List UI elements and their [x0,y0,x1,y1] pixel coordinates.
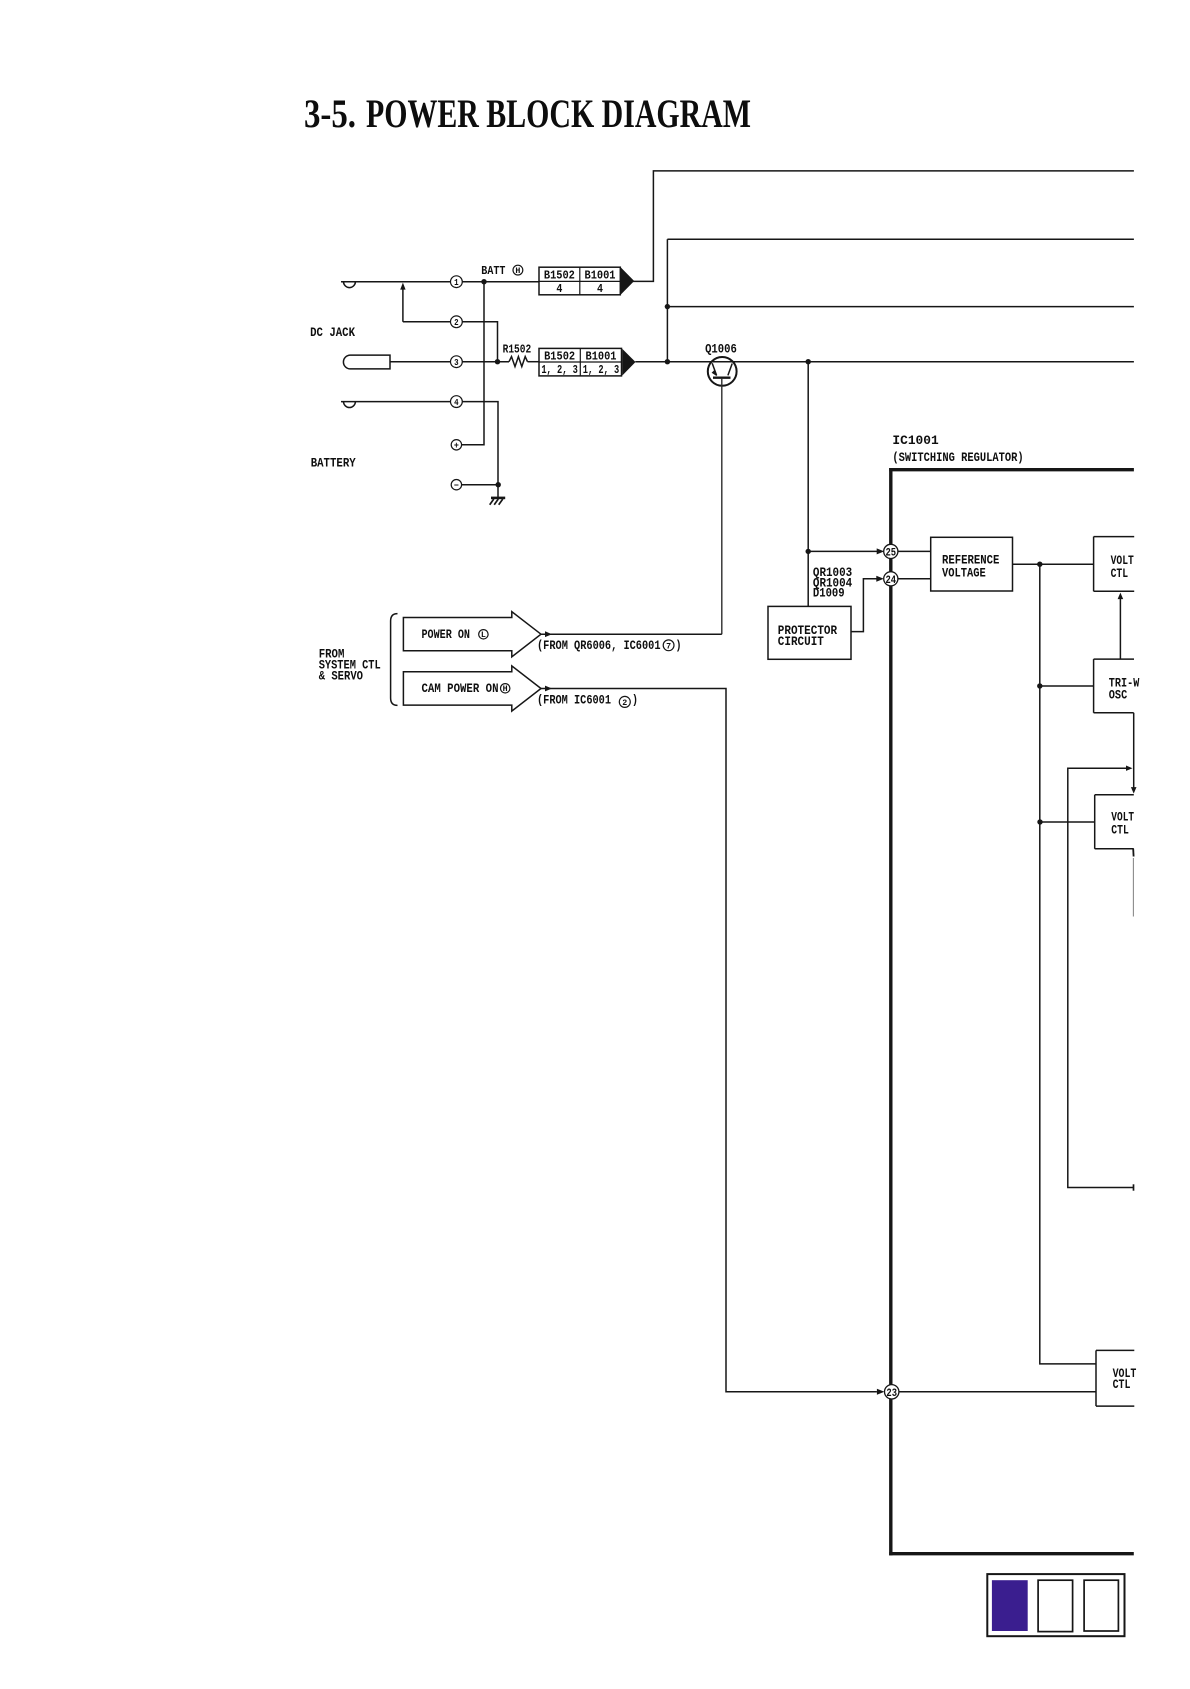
DC jack contact pin 1 (cup) [343,282,355,288]
pin 4 [451,396,463,408]
pin 2 [451,316,463,328]
svg-text:CTL: CTL [1111,566,1129,581]
svg-text:+: + [454,441,459,451]
plug-detect switch arrow [402,289,404,322]
wire - terminal to ground [462,484,498,486]
wire arrow to pin 2 [403,321,451,323]
svg-text:POWER ON: POWER ON [422,627,471,642]
svg-text:2: 2 [454,317,459,328]
svg-text:L: L [481,631,486,640]
battery + terminal [451,440,461,450]
pin 25 [884,544,898,558]
junction rail x667 [665,359,670,364]
connector block arrow (to top rail) [621,268,634,295]
svg-text:B1502: B1502 [544,270,575,283]
block REFERENCE VOLTAGE [931,537,1013,591]
svg-text:4: 4 [597,283,603,296]
wire tri-osc down to volt ctl 2 [1133,713,1135,790]
svg-text:H: H [503,685,508,694]
svg-text:(SWITCHING REGULATOR): (SWITCHING REGULATOR) [892,450,1023,465]
svg-text:B1001: B1001 [585,270,616,283]
svg-text:4: 4 [454,397,459,408]
DC jack contact pin 4 (cup) [343,402,355,408]
connector B1502/B1001 pins 1-3 block [539,348,622,376]
svg-text:IC1001: IC1001 [892,433,938,448]
ground (chassis) [491,497,505,500]
wire pin 25 to reference voltage [898,550,931,552]
signal arrow POWER ON L [403,612,541,657]
junction pin2 net on pin3 wire [495,359,500,364]
wire bus to volt ctl 2 [1040,821,1095,823]
wire feedback loop [1068,768,1134,1187]
svg-text:3: 3 [454,357,459,368]
wire plug to pin 3 [390,361,451,363]
feedback end tick [1133,1184,1135,1190]
IC1001 box outline [889,468,1134,471]
block VOLT CTL (middle) [1094,795,1096,849]
block VOLT CTL (top) [1093,537,1095,592]
wire pin 24 to reference voltage [898,578,931,580]
wire rail 2 [667,238,1134,240]
signal arrow CAM POWER ON H [403,666,541,711]
wire + terminal up to BATT node [462,282,484,445]
svg-text:(FROM QR6006, IC6001: (FROM QR6006, IC6001 [537,638,661,653]
wire rail 3 [667,306,1134,308]
wire tri-osc to volt ctl up [1119,599,1121,659]
junction tri-osc input [1037,683,1042,688]
bracket FROM SYSTEM CTL [391,614,398,706]
wire jack contact to pin 4 [341,401,451,403]
svg-text:VOLTAGE: VOLTAGE [942,566,986,581]
svg-text:): ) [676,638,682,653]
DC jack contact pin 3 (plug) [343,355,390,369]
wire resistor to connector [528,361,540,363]
wire bus to tri-osc [1040,685,1094,687]
svg-text:CAM POWER ON: CAM POWER ON [422,681,499,696]
wire pin 2 right then down to pin-3 net [462,322,497,362]
svg-text:D1009: D1009 [813,585,845,600]
pin 24 [884,572,898,586]
svg-text:−: − [454,481,459,491]
wire pin3 net main rail [635,361,1134,363]
svg-text:3-5.: 3-5. [304,91,356,136]
wire Q1006 base down to POWER ON net [721,379,723,634]
wire pin 3 to resistor [462,361,509,363]
wire vertical reference bus [1040,564,1096,1364]
connector block arrow (pins 1-3) [622,349,635,376]
svg-text:OSC: OSC [1109,688,1128,703]
svg-text:24: 24 [886,575,897,587]
block VOLT CTL (bottom) [1095,1350,1097,1406]
svg-text:BATTERY: BATTERY [311,456,356,471]
wire reference voltage output [1013,563,1094,565]
svg-text:(FROM IC6001: (FROM IC6001 [537,693,611,708]
page tab marker [987,1574,1124,1636]
svg-text:B1502: B1502 [544,350,575,363]
faint line below volt ctl 2 [1132,858,1134,917]
svg-text:BATT: BATT [481,264,505,278]
arrowhead into pin 24 [876,576,884,582]
svg-text:B1001: B1001 [586,350,617,363]
junction rail 3 [665,304,670,309]
wire Q1006 node down to protector [807,362,809,607]
svg-text:1: 1 [454,277,459,288]
svg-text:1, 2, 3: 1, 2, 3 [541,364,578,377]
wire rail up x667 [666,239,668,362]
svg-text:Q1006: Q1006 [705,342,737,357]
wire connector to top rail [633,171,1134,282]
battery - terminal [451,480,461,490]
wire POWER ON to Q1006 base [541,633,722,635]
pin 3 [451,356,463,368]
svg-text:CIRCUIT: CIRCUIT [778,634,824,649]
svg-text:23: 23 [886,1388,897,1400]
wire jack contact to pin 1 [341,281,451,283]
arrowhead into pin 23 [877,1389,885,1395]
wire node to pin 25 [808,550,877,552]
junction Q1006 collector node [806,359,811,364]
wire protector to pin 24 [851,579,877,632]
svg-text:25: 25 [886,547,897,559]
pin 23 [885,1385,899,1399]
pin 1 [451,276,463,288]
svg-text:CTL: CTL [1111,823,1129,838]
svg-text:7: 7 [666,641,671,651]
junction volt ctl 2 input [1037,819,1042,824]
wire pin 4 to ground net [462,402,498,485]
block TRI-WAVE OSC [1093,659,1095,713]
junction ground node [496,482,501,487]
svg-text:CTL: CTL [1113,1377,1131,1392]
protector circuit block [768,606,851,659]
svg-text:1, 2, 3: 1, 2, 3 [583,364,620,377]
svg-text:H: H [515,267,520,276]
wire pin 23 to volt ctl 3 [899,1391,1096,1393]
svg-text:): ) [632,693,638,708]
volt ctl 2 bottom tick [1132,849,1134,857]
wire CAM POWER ON down to pin 23 [541,689,877,1392]
transistor Q1006 [708,357,737,386]
arrowhead POWER ON [545,631,552,637]
resistor R1502 [509,357,528,367]
svg-text:POWER BLOCK DIAGRAM: POWER BLOCK DIAGRAM [366,91,751,136]
svg-text:R1502: R1502 [503,342,532,356]
svg-text:DC JACK: DC JACK [310,325,355,340]
svg-text:2: 2 [622,698,627,708]
arrowhead feedback into osc line [1126,766,1133,771]
wire pin 1 to connector B1502 (BATT H net) [462,281,539,283]
junction ref bus [1037,562,1042,567]
svg-text:4: 4 [556,283,562,296]
arrowhead into pin 25 [877,548,885,554]
connector B1502/B1001 pin 4 block [539,267,620,295]
junction node BATT [481,279,486,284]
arrowhead CAM POWER ON [545,686,552,692]
junction protector node [806,549,811,554]
svg-text:& SERVO: & SERVO [319,668,363,683]
wire down to ground [497,485,499,498]
